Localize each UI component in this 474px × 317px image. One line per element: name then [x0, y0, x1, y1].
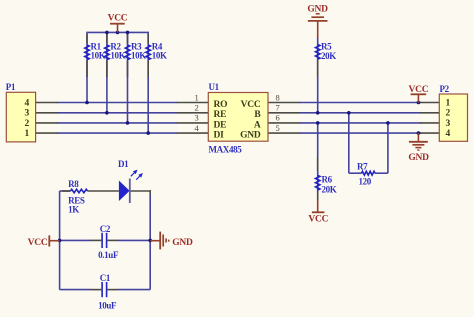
- svg-text:10K: 10K: [110, 51, 125, 61]
- svg-text:DE: DE: [214, 120, 227, 130]
- svg-text:2: 2: [446, 109, 451, 119]
- svg-text:B: B: [254, 110, 261, 120]
- svg-text:10K: 10K: [91, 51, 106, 61]
- svg-text:20K: 20K: [322, 184, 337, 194]
- svg-text:C2: C2: [100, 224, 111, 234]
- svg-text:2: 2: [25, 119, 30, 129]
- svg-text:VCC: VCC: [308, 215, 328, 225]
- svg-text:A: A: [254, 120, 261, 130]
- svg-text:C1: C1: [100, 273, 111, 283]
- svg-text:P1: P1: [6, 82, 16, 92]
- svg-text:VCC: VCC: [108, 13, 128, 23]
- svg-text:5: 5: [276, 123, 280, 133]
- svg-text:MAX485: MAX485: [209, 145, 243, 155]
- svg-text:1: 1: [446, 98, 451, 108]
- svg-text:GND: GND: [307, 4, 328, 14]
- svg-text:R7: R7: [357, 162, 368, 172]
- svg-text:1K: 1K: [68, 205, 79, 215]
- svg-text:U1: U1: [209, 82, 220, 92]
- svg-text:R6: R6: [322, 175, 333, 185]
- svg-text:VCC: VCC: [28, 238, 48, 248]
- svg-text:3: 3: [446, 119, 451, 129]
- svg-text:GND: GND: [408, 153, 429, 163]
- svg-text:VCC: VCC: [241, 100, 261, 110]
- svg-text:2: 2: [194, 103, 198, 113]
- svg-text:RE: RE: [214, 110, 227, 120]
- svg-text:120: 120: [359, 177, 372, 187]
- svg-text:P2: P2: [440, 84, 450, 94]
- svg-text:3: 3: [194, 113, 198, 123]
- svg-text:1: 1: [25, 129, 30, 139]
- svg-text:20K: 20K: [321, 51, 336, 61]
- svg-text:1: 1: [194, 92, 198, 102]
- svg-text:DI: DI: [214, 131, 225, 141]
- svg-text:RO: RO: [214, 100, 228, 110]
- svg-text:4: 4: [194, 123, 199, 133]
- svg-text:3: 3: [25, 109, 30, 119]
- svg-text:10uF: 10uF: [98, 301, 117, 311]
- svg-text:R8: R8: [68, 179, 79, 189]
- svg-text:10K: 10K: [152, 51, 167, 61]
- svg-text:D1: D1: [118, 159, 129, 169]
- svg-text:VCC: VCC: [408, 85, 428, 95]
- svg-text:7: 7: [276, 103, 280, 113]
- svg-text:4: 4: [446, 129, 451, 139]
- svg-text:0.1uF: 0.1uF: [98, 250, 119, 260]
- svg-text:8: 8: [276, 92, 280, 102]
- svg-text:10K: 10K: [131, 51, 146, 61]
- svg-text:GND: GND: [172, 238, 193, 248]
- svg-text:GND: GND: [240, 131, 261, 141]
- svg-text:6: 6: [276, 113, 280, 123]
- svg-text:4: 4: [25, 98, 30, 108]
